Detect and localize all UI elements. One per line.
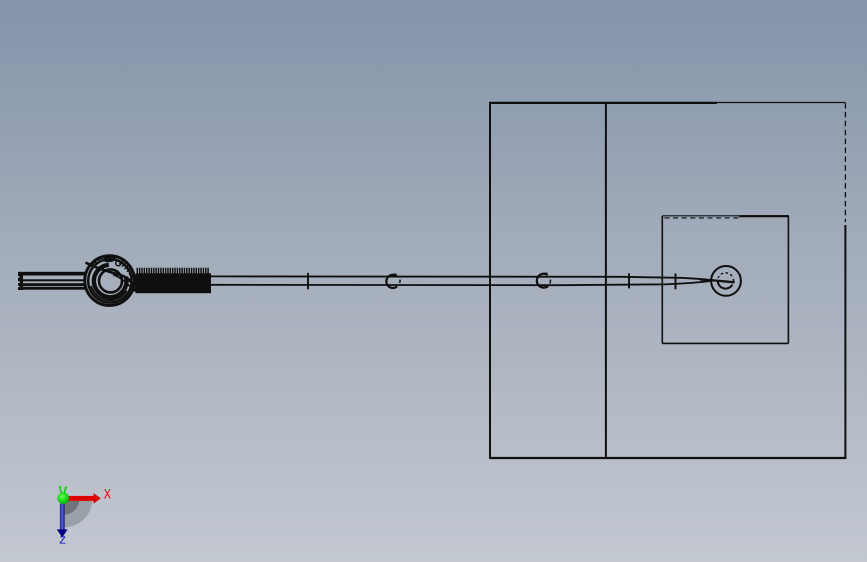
- svg-text:X: X: [104, 486, 112, 502]
- svg-text:Z: Z: [59, 535, 66, 547]
